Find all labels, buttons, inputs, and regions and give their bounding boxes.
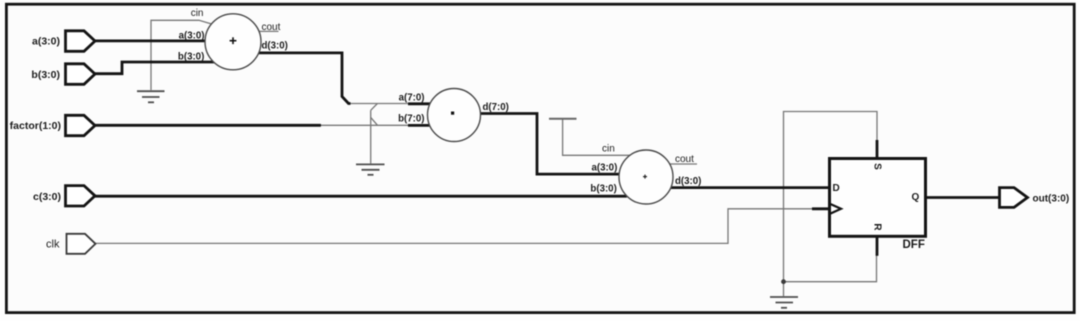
svg-text:S: S	[871, 163, 882, 170]
svg-text:D: D	[833, 183, 840, 194]
svg-text:clk: clk	[46, 239, 60, 251]
svg-text:d(3:0): d(3:0)	[675, 176, 701, 187]
svg-text:b(3:0): b(3:0)	[178, 52, 204, 63]
svg-text:factor(1:0): factor(1:0)	[10, 120, 61, 132]
svg-text:a(3:0): a(3:0)	[179, 31, 205, 42]
svg-text:a(3:0): a(3:0)	[591, 163, 617, 174]
svg-text:cin: cin	[602, 143, 615, 154]
svg-text:b(3:0): b(3:0)	[31, 69, 60, 81]
svg-text:a(7:0): a(7:0)	[399, 92, 425, 103]
svg-text:b(7:0): b(7:0)	[398, 114, 424, 125]
svg-text:b(3:0): b(3:0)	[590, 183, 616, 194]
svg-text:R: R	[871, 223, 882, 231]
svg-text:cout: cout	[262, 22, 281, 33]
svg-text:cout: cout	[675, 154, 694, 165]
svg-text:d(7:0): d(7:0)	[483, 102, 509, 113]
svg-text:c(3:0): c(3:0)	[33, 191, 61, 203]
svg-text:d(3:0): d(3:0)	[262, 40, 288, 51]
svg-text:DFF: DFF	[903, 239, 925, 251]
svg-text:out(3:0): out(3:0)	[1033, 194, 1070, 205]
svg-text:a(3:0): a(3:0)	[32, 36, 60, 48]
svg-text:cin: cin	[191, 8, 204, 19]
svg-text:Q: Q	[912, 192, 920, 203]
